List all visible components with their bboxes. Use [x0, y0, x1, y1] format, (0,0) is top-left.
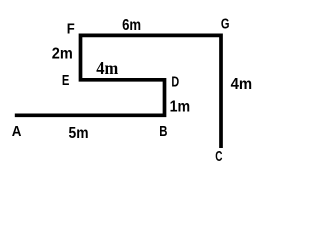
svg-text:B: B: [159, 124, 167, 140]
svg-text:F: F: [67, 22, 75, 38]
svg-text:4m: 4m: [231, 76, 253, 93]
svg-text:6m: 6m: [122, 17, 141, 34]
svg-text:E: E: [62, 73, 70, 89]
svg-text:G: G: [221, 17, 230, 33]
svg-text:5m: 5m: [69, 125, 89, 142]
svg-text:2m: 2m: [52, 45, 73, 62]
wire path A-B-D-E-F-G-C: [15, 35, 221, 148]
svg-text:D: D: [171, 75, 179, 91]
svg-text:C: C: [215, 149, 223, 165]
svg-text:4m: 4m: [96, 58, 118, 78]
svg-text:A: A: [12, 124, 22, 140]
svg-text:1m: 1m: [170, 99, 191, 116]
